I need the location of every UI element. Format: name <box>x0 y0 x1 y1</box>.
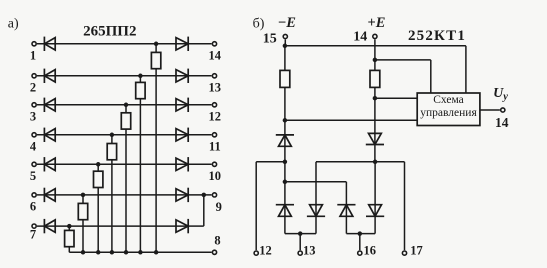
svg-text:Uу: Uу <box>493 86 508 103</box>
svg-text:12: 12 <box>259 243 272 257</box>
resistor R4 <box>107 144 116 160</box>
svg-text:6: 6 <box>30 200 36 214</box>
junction row 7 / R7 <box>67 224 72 229</box>
diode VD2 (cathode-left) <box>43 69 45 83</box>
wire junction to resistor R7 <box>68 226 70 230</box>
wire down to pin 12 <box>255 162 257 250</box>
resistor R2 <box>136 82 145 98</box>
junction R6 / bus <box>81 250 86 255</box>
wire VD17 down <box>284 216 286 233</box>
wire pin 14 down <box>374 39 376 60</box>
diode VD14 (row 7 right, anode-left) <box>176 220 188 232</box>
svg-text:17: 17 <box>410 243 423 257</box>
wire pin 5 to diode VD5 <box>37 163 55 165</box>
diode VD13 (row 6 right, anode-left) <box>176 189 188 201</box>
junction -E rail <box>283 44 288 49</box>
wire row 4 <box>55 134 188 136</box>
terminal pin 11 <box>212 133 216 137</box>
wire VD20 down <box>374 216 376 233</box>
wire resistor R1 to bottom bus <box>155 69 157 253</box>
junction R4 / bus <box>110 250 115 255</box>
wire -E top rail <box>285 45 466 47</box>
terminal pin 13 <box>298 251 302 255</box>
wire row 1 <box>55 43 188 45</box>
wire node B rail <box>316 161 405 163</box>
junction row 2 / R2 <box>138 74 143 79</box>
terminal pin 16 <box>358 251 362 255</box>
junction node A <box>283 160 288 165</box>
wire VD16 to node B <box>374 145 376 162</box>
junction node pin 9 <box>202 193 207 198</box>
junction R5 / bus <box>96 250 101 255</box>
svg-text:Схема: Схема <box>433 94 464 106</box>
wire control box output Uy <box>480 109 500 111</box>
svg-text:9: 9 <box>216 200 222 214</box>
junction row 1 / R1 <box>154 42 159 47</box>
diode VD19 (cathode-up) <box>337 204 355 206</box>
resistor R6 <box>78 203 87 219</box>
terminal pin 13 <box>212 74 216 78</box>
terminal pin 15 (-E) <box>283 34 287 38</box>
terminal pin 14 <box>212 42 216 46</box>
diode VD4 (cathode-left) <box>43 128 45 142</box>
junction row 5 / R5 <box>96 162 101 167</box>
bottom bus wire <box>69 251 211 253</box>
terminal pin 3 <box>32 103 36 107</box>
junction pin 13 node <box>298 231 303 236</box>
diode VD7 (cathode-left) <box>43 219 45 233</box>
wire junction to resistor R6 <box>82 195 84 204</box>
svg-text:16: 16 <box>364 243 377 257</box>
wire pin 3 to diode VD3 <box>37 104 55 106</box>
terminal pin 2 <box>32 74 36 78</box>
wire junction to diode VD16 <box>374 98 376 144</box>
wire -E branch <box>284 46 286 71</box>
terminal pin 10 <box>212 162 216 166</box>
wire -E branch to control box <box>285 119 417 121</box>
junction row 3 / R3 <box>124 103 129 108</box>
junction R3 / bus <box>124 250 129 255</box>
terminal pin 12 <box>254 251 258 255</box>
wire resistor R7 to bottom bus <box>68 247 70 253</box>
svg-text:15: 15 <box>263 32 277 47</box>
svg-text:13: 13 <box>303 243 316 257</box>
svg-text:б): б) <box>253 17 265 32</box>
wire diode VD10 to pin 12 <box>188 104 211 106</box>
wire VD14 up to pin 9 node <box>203 195 205 226</box>
terminal pin 1 <box>32 42 36 46</box>
diode VD20 (cathode-down) <box>369 205 382 217</box>
junction R2 / bus <box>138 250 143 255</box>
svg-text:252КТ1: 252КТ1 <box>408 28 466 44</box>
wire diode VD8 to pin 14 <box>188 43 211 45</box>
svg-text:а): а) <box>8 17 19 32</box>
terminal pin 7 <box>32 224 36 228</box>
diode VD16 (cathode-down) <box>369 133 382 144</box>
diode VD3 (cathode-left) <box>43 98 45 112</box>
wire down to pin 13 <box>299 234 301 251</box>
svg-text:265ПП2: 265ПП2 <box>83 23 136 39</box>
terminal pin 14 (+E) <box>373 34 377 38</box>
wire -E rail drop to control box <box>465 46 467 93</box>
wire junction to diode VD15 <box>284 120 286 146</box>
wire diode VD12 to pin 10 <box>188 163 211 165</box>
wire node B to diode VD20 <box>374 162 376 217</box>
svg-text:3: 3 <box>30 110 36 124</box>
diode VD18 (cathode-down) <box>310 205 323 217</box>
diode VD12 (row 5 right, anode-left) <box>176 158 188 170</box>
wire pin 4 to diode VD4 <box>37 134 55 136</box>
wire resistor R6 to bottom bus <box>82 220 84 253</box>
wire diode VD9 to pin 13 <box>188 75 211 77</box>
wire down to pin 16 <box>359 234 361 251</box>
resistor R9 (+E branch) <box>370 70 380 87</box>
wire VD15 to node A <box>284 146 286 162</box>
diode VD15 (cathode-up) <box>276 134 294 136</box>
svg-text:7: 7 <box>30 227 36 241</box>
junction node A lower <box>283 180 288 185</box>
junction node B <box>373 160 378 165</box>
terminal pin 4 <box>32 133 36 137</box>
terminal pin 12 <box>212 103 216 107</box>
junction R1 / bus <box>154 250 159 255</box>
diode VD11 (row 4 right, anode-left) <box>176 129 188 141</box>
wire pin 7 to diode VD7 <box>37 225 55 227</box>
junction +E rail <box>373 58 378 63</box>
diode VD5 (cathode-left) <box>43 157 45 171</box>
wire node A down <box>284 162 286 182</box>
terminal pin 6 <box>32 193 36 197</box>
diode VD8 (row 1 right, anode-left) <box>176 38 188 50</box>
wire junction to resistor R2 <box>139 76 141 83</box>
wire pin 2 to diode VD2 <box>37 75 55 77</box>
wire node A to diode VD17 <box>284 182 286 217</box>
junction row 4 / R4 <box>110 133 115 138</box>
wire junction to resistor R3 <box>125 105 127 113</box>
diode VD6 (cathode-left) <box>43 188 45 202</box>
terminal pin 17 <box>402 251 406 255</box>
diode VD1 (cathode-left) <box>43 37 45 51</box>
junction +E branch / control box feed <box>373 96 378 101</box>
wire node B to diode VD18 <box>315 162 317 217</box>
wire +E rail drop to control box <box>430 60 432 93</box>
terminal pin 8 <box>212 250 216 254</box>
wire diode VD13 to pin 9 <box>188 194 211 196</box>
wire R9 to junction <box>374 87 376 98</box>
wire resistor R2 to bottom bus <box>139 99 141 253</box>
wire resistor R3 to bottom bus <box>125 129 127 252</box>
wire junction to resistor R1 <box>155 44 157 53</box>
resistor R8 (-E branch) <box>280 70 290 87</box>
svg-text:10: 10 <box>209 169 222 183</box>
wire node B down to pin 17 <box>404 162 406 250</box>
svg-text:11: 11 <box>209 140 221 154</box>
wire pin 1 to diode VD1 <box>37 43 55 45</box>
resistor R5 <box>94 171 103 187</box>
wire resistor R5 to bottom bus <box>97 188 99 253</box>
svg-text:2: 2 <box>30 81 36 95</box>
wire resistor R4 to bottom bus <box>111 160 113 253</box>
wire row 7 <box>55 225 188 227</box>
wire pin 15 down <box>284 39 286 45</box>
wire down to diode VD19 <box>345 182 347 217</box>
terminal pin 5 <box>32 162 36 166</box>
diode VD10 (row 3 right, anode-left) <box>176 99 188 111</box>
wire row 3 <box>55 104 188 106</box>
svg-text:12: 12 <box>209 110 222 124</box>
svg-text:14: 14 <box>495 115 509 130</box>
resistor R3 <box>121 113 130 129</box>
diode VD17 (cathode-up) <box>276 204 294 206</box>
wire pin 16 rail <box>346 233 375 235</box>
wire diode VD11 to pin 11 <box>188 134 211 136</box>
terminal Uy output <box>501 108 505 112</box>
svg-text:14: 14 <box>209 49 222 63</box>
svg-text:8: 8 <box>214 233 220 247</box>
terminal pin 9 <box>212 193 216 197</box>
wire +E branch to control box <box>375 97 417 99</box>
wire R8 to junction <box>284 87 286 120</box>
svg-text:управления: управления <box>420 107 477 119</box>
junction -E branch / control box feed <box>283 118 288 123</box>
diode VD9 (row 2 right, anode-left) <box>176 70 188 82</box>
wire VD18 down <box>315 216 317 233</box>
wire row 5 <box>55 163 188 165</box>
svg-text:1: 1 <box>30 49 36 63</box>
wire junction to resistor R4 <box>111 135 113 144</box>
wire pin 6 to diode VD6 <box>37 194 55 196</box>
svg-text:14: 14 <box>353 30 367 45</box>
wire +E branch <box>374 60 376 71</box>
svg-text:5: 5 <box>30 169 36 183</box>
junction row 6 / R6 <box>81 193 86 198</box>
wire node A to pin 12 branch <box>256 161 285 163</box>
svg-text:−E: −E <box>278 15 296 31</box>
junction pin 16 node <box>358 231 363 236</box>
wire diode VD14 output <box>188 225 204 227</box>
wire junction to resistor R5 <box>97 164 99 171</box>
wire row 2 <box>55 75 188 77</box>
resistor R7 <box>65 230 74 246</box>
wire node A to VD19 branch <box>285 181 347 183</box>
wire +E rail <box>375 59 431 61</box>
wire row 6 <box>55 194 188 196</box>
svg-text:+E: +E <box>368 15 386 31</box>
wire VD19 down <box>345 216 347 233</box>
wire pin 13 rail <box>285 233 316 235</box>
control box U1 (Shema upravleniya) <box>417 93 480 126</box>
resistor R1 <box>151 52 160 68</box>
svg-text:13: 13 <box>209 81 222 95</box>
svg-text:4: 4 <box>30 140 37 154</box>
